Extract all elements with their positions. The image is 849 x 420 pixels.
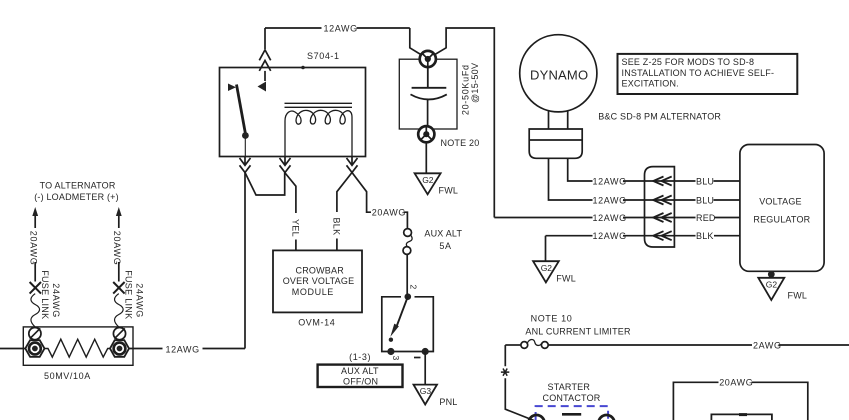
voltage regulator U1 [740, 145, 824, 272]
battery contactor box [711, 414, 772, 420]
connector pin chevron up (relay common) [259, 50, 270, 71]
svg-text:ANL CURRENT LIMITER: ANL CURRENT LIMITER [525, 327, 631, 337]
wire 2AWG [548, 344, 849, 346]
svg-text:INSTALLATION TO ACHIEVE SELF-: INSTALLATION TO ACHIEVE SELF- [622, 68, 775, 78]
shunt bolt left [25, 340, 44, 357]
svg-text:G2: G2 [766, 280, 778, 290]
relay switch arm [237, 85, 246, 134]
switch lever [396, 297, 408, 328]
right fuse link column [118, 211, 120, 282]
relay fixed contact (right, from top pin) [264, 71, 266, 81]
svg-text:DYNAMO: DYNAMO [530, 68, 588, 83]
crowbar over voltage module OVM-14 [273, 250, 362, 312]
svg-text:NOTE 10: NOTE 10 [531, 313, 573, 323]
svg-text:OVER VOLTAGE: OVER VOLTAGE [283, 276, 355, 286]
svg-text:FWL: FWL [556, 273, 576, 283]
switch terminal 2 [405, 293, 412, 300]
capacitor 20-50KuFd assembly box [399, 59, 457, 129]
svg-text:12AWG: 12AWG [324, 23, 358, 33]
starter contactor dashed outline [536, 406, 609, 420]
svg-text:REGULATOR: REGULATOR [753, 215, 810, 225]
starter contactor terminal right [599, 415, 615, 420]
svg-text:NOTE 20: NOTE 20 [441, 138, 480, 148]
ground G2 FWL (BLK lead) [533, 261, 559, 282]
svg-text:FWL: FWL [788, 290, 808, 300]
pin label minus [414, 357, 421, 359]
wires to regulator [714, 181, 740, 236]
wire arm pin to coil left pin [245, 173, 285, 196]
switch terminal minus [422, 348, 429, 355]
note box SEE Z-25 [618, 54, 798, 94]
svg-text:FUSE LINK: FUSE LINK [40, 270, 50, 319]
svg-text:SEE Z-25 FOR MODS TO SD-8: SEE Z-25 FOR MODS TO SD-8 [622, 57, 755, 67]
wire 12AWG shunt to relay [130, 348, 246, 350]
capacitor plates [412, 67, 447, 88]
svg-text:TO ALTERNATOR: TO ALTERNATOR [40, 180, 116, 190]
svg-text:YEL: YEL [291, 219, 301, 237]
ground G3 PNL [414, 385, 438, 405]
starter contactor terminal left [529, 415, 545, 420]
ground G2 FWL (capacitor) [415, 173, 441, 194]
wire 20AWG battery contactor loop [673, 382, 807, 420]
shunt bolt right [110, 340, 129, 357]
fuse AUX ALT 5A [404, 229, 412, 237]
wire switch to ground [424, 352, 426, 385]
wire arm pin to shunt bus [244, 173, 246, 349]
switch terminal 3 [387, 348, 394, 355]
starter contactor bar [562, 413, 581, 416]
connector block [645, 167, 675, 247]
connector chevrons [653, 177, 672, 186]
wire 20AWG coil right to aux alt fuse [352, 173, 407, 229]
svg-text:G2: G2 [422, 175, 434, 185]
connector pin chevron down (arm pin) [240, 157, 251, 173]
svg-text:AUX ALT: AUX ALT [341, 366, 379, 376]
svg-text:EXCITATION.: EXCITATION. [622, 78, 679, 88]
svg-text:5A: 5A [439, 241, 451, 251]
ground G2 FWL (regulator) [758, 278, 784, 300]
wire BLK coil right to crowbar [337, 173, 352, 251]
fuse X (right) [113, 282, 124, 294]
svg-text:STARTER: STARTER [548, 382, 591, 392]
svg-text:12AWG: 12AWG [593, 195, 627, 205]
switch AUX ALT body loop [382, 297, 434, 352]
relay arm pivot [242, 132, 249, 139]
dynamo legs [549, 111, 568, 129]
svg-text:2: 2 [409, 285, 419, 290]
svg-text:S704-1: S704-1 [307, 51, 340, 61]
left fuse link column [34, 211, 36, 282]
regulator ground dot [768, 271, 775, 278]
capacitor top terminal [420, 51, 436, 67]
node leader dot on relay box [301, 66, 305, 70]
shunt box [23, 327, 133, 365]
switch moving contact dot [389, 338, 393, 342]
svg-text:20AWG: 20AWG [372, 208, 406, 218]
dynamo leads to 12AWG rows [494, 158, 592, 261]
dynamo base [529, 129, 582, 158]
svg-text:12AWG: 12AWG [593, 213, 627, 223]
svg-text:CONTACTOR: CONTACTOR [543, 393, 601, 403]
wire down to starter contactor [505, 345, 534, 420]
svg-text:12AWG: 12AWG [593, 231, 627, 241]
relay S704-1 box [220, 68, 366, 157]
svg-text:OVM-14: OVM-14 [298, 318, 335, 328]
relay fixed contact (left) [228, 84, 236, 92]
svg-text:FWL: FWL [439, 186, 459, 196]
svg-text:20AWG: 20AWG [112, 231, 122, 266]
svg-text:24AWG: 24AWG [51, 283, 61, 318]
connector pin chevron down (coil left) [280, 157, 291, 173]
svg-text:MODULE: MODULE [292, 287, 334, 297]
relay coil [285, 110, 352, 156]
fuse link spring (right) [115, 294, 124, 327]
svg-text:@15-50V: @15-50V [470, 63, 480, 103]
wire fuse to switch [406, 255, 408, 295]
svg-text:12AWG: 12AWG [166, 344, 200, 354]
wire bus left [0, 348, 25, 350]
svg-text:2AWG: 2AWG [753, 340, 782, 350]
svg-text:BLU: BLU [696, 195, 714, 205]
svg-text:VOLTAGE: VOLTAGE [759, 197, 802, 207]
svg-text:BLK: BLK [332, 218, 342, 236]
connector pin chevron down (coil right) [347, 157, 358, 173]
svg-text:(-) LOADMETER (+): (-) LOADMETER (+) [34, 192, 119, 202]
shunt resistor 50MV/10A [44, 339, 111, 357]
battery contactor terminal [739, 413, 747, 416]
shunt screw left [29, 328, 41, 340]
svg-text:20AWG: 20AWG [719, 378, 753, 388]
shunt screw right [113, 328, 125, 340]
svg-text:12AWG: 12AWG [593, 176, 627, 186]
fuse ANL current limiter [505, 344, 521, 346]
svg-text:G3: G3 [420, 386, 432, 396]
label box AUX ALT OFF/ON [318, 365, 403, 387]
svg-text:20AWG: 20AWG [29, 231, 39, 266]
svg-text:(1-3): (1-3) [349, 352, 371, 362]
svg-text:50MV/10A: 50MV/10A [44, 371, 91, 381]
svg-text:PNL: PNL [439, 397, 457, 407]
svg-text:OFF/ON: OFF/ON [343, 376, 378, 386]
svg-text:24AWG: 24AWG [135, 283, 145, 318]
svg-text:B&C SD-8 PM ALTERNATOR: B&C SD-8 PM ALTERNATOR [598, 111, 721, 121]
wire 12AWG top bus [265, 28, 494, 218]
wires label to connector [623, 181, 696, 236]
svg-text:BLU: BLU [696, 176, 714, 186]
capacitor bottom terminal [418, 126, 434, 142]
svg-text:20-50KuFd: 20-50KuFd [460, 64, 470, 115]
wire cap to ground [425, 142, 427, 174]
fuse link spring (left) [31, 294, 40, 327]
splice asterisk [501, 369, 509, 376]
svg-text:G2: G2 [541, 263, 553, 273]
svg-text:AUX ALT: AUX ALT [424, 229, 462, 239]
svg-text:FUSE LINK: FUSE LINK [124, 270, 134, 319]
relay coil core [285, 103, 353, 107]
fuse X (left) [30, 282, 41, 294]
wire YEL coil pin to crowbar [285, 173, 296, 251]
alternator DYNAMO [520, 35, 597, 112]
svg-text:RED: RED [696, 213, 716, 223]
svg-text:BLK: BLK [696, 231, 714, 241]
svg-text:3: 3 [391, 356, 401, 361]
svg-text:CROWBAR: CROWBAR [296, 266, 345, 276]
